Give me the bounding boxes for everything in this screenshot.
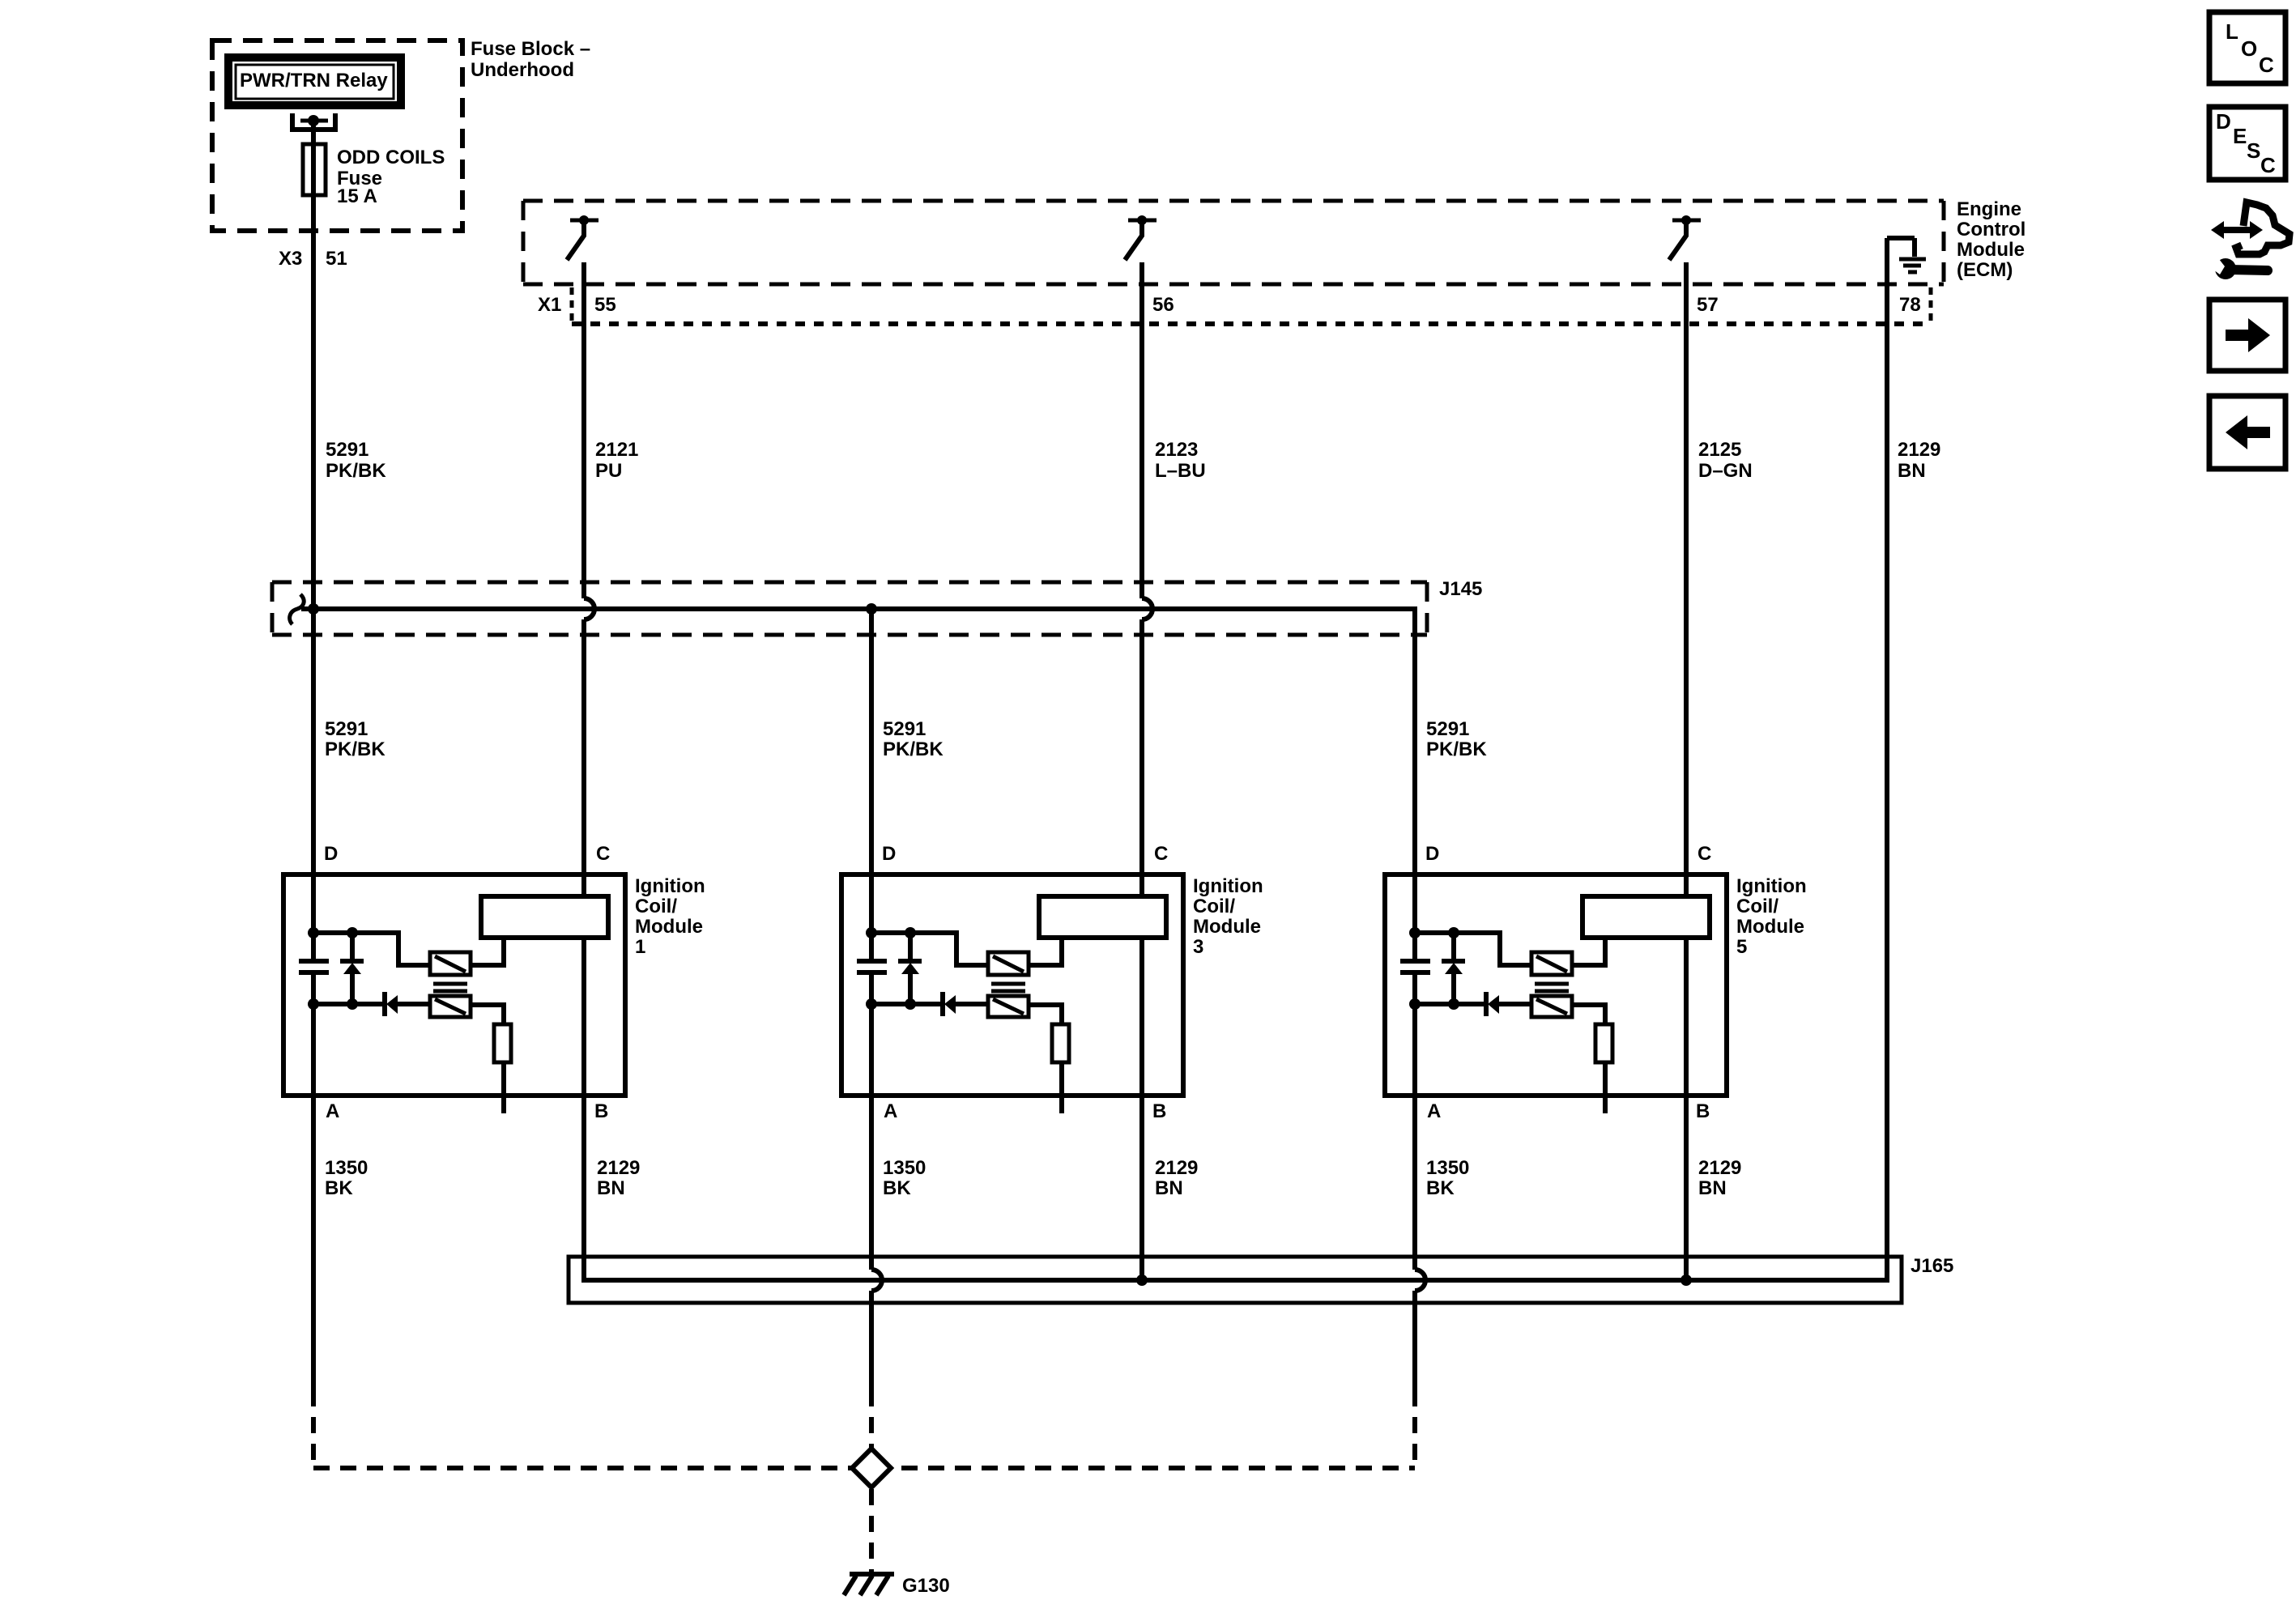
- svg-text:BN: BN: [1898, 460, 1926, 482]
- coil 3 output wire to resistor: [1029, 1005, 1062, 1113]
- svg-text:D: D: [882, 843, 896, 865]
- relay terminal bracket: [292, 113, 335, 130]
- wire 5291 PK/BK to coil 3 D: [869, 609, 874, 961]
- svg-text:C: C: [2260, 153, 2276, 177]
- coil 5 diode: [1484, 992, 1489, 1016]
- coil 3 secondary winding: [988, 996, 1029, 1017]
- ECM dashed box bottom edge: [523, 283, 1944, 287]
- svg-text:51: 51: [326, 248, 347, 270]
- coil 1 row1 wire: [313, 933, 430, 965]
- icon left arrow: [2226, 415, 2270, 449]
- icon hand outline: [2236, 202, 2290, 254]
- svg-text:78: 78: [1899, 294, 1921, 316]
- junction dot J165 coil5 B: [1680, 1274, 1692, 1286]
- svg-text:S: S: [2247, 138, 2260, 163]
- svg-text:B: B: [594, 1100, 608, 1122]
- svg-text:PK/BK: PK/BK: [326, 460, 386, 482]
- ground G130 symbol: [850, 1572, 894, 1577]
- svg-text:Ignition: Ignition: [1193, 875, 1263, 897]
- dashed ground wire from coil5 A: [1412, 1390, 1417, 1468]
- dashed ground wire from coil3 A: [869, 1390, 874, 1450]
- ignition coil/module 3 box: [841, 874, 1183, 1096]
- svg-text:1350: 1350: [883, 1157, 926, 1179]
- coil 5 rect to primary wire: [1572, 938, 1605, 965]
- svg-text:1: 1: [635, 936, 645, 958]
- svg-text:C: C: [1698, 843, 1711, 865]
- svg-text:55: 55: [594, 294, 616, 316]
- svg-text:D: D: [1425, 843, 1439, 865]
- svg-text:2129: 2129: [1898, 439, 1940, 461]
- coil 3 core bars: [991, 982, 1025, 986]
- svg-text:BN: BN: [597, 1177, 625, 1199]
- coil 1 core bars: [433, 982, 467, 986]
- wire 1350 BK coil1 A: [311, 972, 316, 1390]
- svg-text:BN: BN: [1698, 1177, 1727, 1199]
- coil 5 row1 wire: [1415, 933, 1531, 965]
- X1 separator dash left: [570, 287, 574, 322]
- svg-text:L–BU: L–BU: [1155, 460, 1206, 482]
- icon box DESC: [2209, 107, 2285, 180]
- svg-text:PK/BK: PK/BK: [1426, 738, 1487, 760]
- junction dot J145 at wire 5291 coil1: [308, 603, 319, 615]
- coil 3 row1 wire: [871, 933, 988, 965]
- coil 1 output wire to resistor: [471, 1005, 504, 1113]
- svg-text:X3: X3: [279, 248, 302, 270]
- svg-text:2123: 2123: [1155, 439, 1198, 461]
- coil 5 row2 wire: [1415, 1002, 1486, 1006]
- svg-text:Engine: Engine: [1957, 198, 2021, 220]
- coil 3 rect to primary wire: [1029, 938, 1062, 965]
- svg-text:BK: BK: [1426, 1177, 1455, 1199]
- svg-text:2125: 2125: [1698, 439, 1741, 461]
- wire 1350 BK coil5 A with J165 hop: [1412, 972, 1417, 1270]
- svg-text:15 A: 15 A: [337, 185, 377, 207]
- ignition coil/module 1 box: [283, 874, 625, 1096]
- svg-text:5291: 5291: [883, 718, 926, 740]
- coil 5 secondary winding: [1531, 996, 1572, 1017]
- svg-text:Coil/: Coil/: [1736, 896, 1778, 917]
- svg-text:Coil/: Coil/: [635, 896, 677, 917]
- relay terminal tick: [300, 119, 328, 123]
- splice pack J145 dashed box: [272, 581, 1427, 585]
- wire 5291 PK/BK to coil 5 D: [1412, 622, 1417, 961]
- svg-text:2129: 2129: [597, 1157, 640, 1179]
- coil 5 zener diode: [1451, 933, 1456, 961]
- coil 1 diode: [382, 992, 387, 1016]
- svg-text:G130: G130: [902, 1575, 950, 1597]
- svg-text:5291: 5291: [326, 439, 368, 461]
- svg-text:Ignition: Ignition: [1736, 875, 1807, 897]
- dashed ground horizontal bus: [313, 1466, 1415, 1470]
- wire 1350 BK coil3 A with J165 hop: [869, 972, 874, 1270]
- svg-text:C: C: [2259, 53, 2274, 77]
- coil 3 junction dots: [866, 927, 877, 938]
- svg-text:56: 56: [1152, 294, 1174, 316]
- wire 2121 PU pin 55 to coil 1 C: [581, 262, 586, 598]
- svg-text:Ignition: Ignition: [635, 875, 705, 897]
- fuse block underhood dashed box: [212, 40, 462, 231]
- ECM internal ground wire bend: [1887, 236, 1915, 240]
- coil 3 row2 wire: [871, 1002, 943, 1006]
- wire 2125 D-GN pin 57 to coil 5 C: [1684, 262, 1689, 1280]
- svg-text:BN: BN: [1155, 1177, 1183, 1199]
- ECM driver switch for pin 57: [1672, 219, 1701, 223]
- svg-text:C: C: [1154, 843, 1168, 865]
- svg-text:L: L: [2226, 19, 2238, 44]
- coil 3 diode: [940, 992, 945, 1016]
- coil 5 core bars: [1535, 982, 1569, 986]
- icon wrench: [2215, 258, 2236, 279]
- ignition coil/module 5 box: [1385, 874, 1727, 1096]
- svg-text:D–GN: D–GN: [1698, 460, 1753, 482]
- svg-text:J165: J165: [1910, 1255, 1953, 1277]
- ECM internal ground symbol bars: [1899, 257, 1926, 262]
- svg-text:PK/BK: PK/BK: [325, 738, 386, 760]
- coil 3 primary winding: [988, 952, 1029, 975]
- dashed ground wire from coil1 A: [311, 1390, 316, 1468]
- svg-text:3: 3: [1193, 936, 1203, 958]
- icon box right arrow: [2209, 300, 2285, 371]
- coil 3 secondary big rect: [1039, 896, 1166, 938]
- coil 3 resistor: [1052, 1024, 1069, 1062]
- svg-text:Underhood: Underhood: [471, 59, 574, 81]
- dashed wire diamond to G130: [869, 1489, 874, 1572]
- svg-text:BK: BK: [325, 1177, 353, 1199]
- coil 1 junction dots: [308, 927, 319, 938]
- svg-text:1350: 1350: [325, 1157, 368, 1179]
- coil 5 secondary big rect: [1582, 896, 1710, 938]
- svg-text:5: 5: [1736, 936, 1747, 958]
- svg-text:5291: 5291: [325, 718, 368, 740]
- junction dot J165 coil3 B: [1136, 1274, 1148, 1286]
- coil 5 primary winding: [1531, 952, 1572, 975]
- J145 bus wire: [301, 609, 1415, 625]
- icon box LOC: [2209, 12, 2285, 83]
- icon box left arrow: [2209, 396, 2285, 469]
- svg-text:Module: Module: [1736, 916, 1804, 938]
- coil 5 junction dots: [1409, 927, 1421, 938]
- coil 1 resistor: [494, 1024, 511, 1062]
- svg-text:2129: 2129: [1155, 1157, 1198, 1179]
- svg-text:1350: 1350: [1426, 1157, 1469, 1179]
- relay K PWR/TRN Relay box: [228, 57, 401, 105]
- svg-text:5291: 5291: [1426, 718, 1469, 740]
- ECM driver switch for pin 55: [570, 219, 598, 223]
- svg-text:Module: Module: [635, 916, 703, 938]
- ECM driver switch for pin 56: [1128, 219, 1157, 223]
- svg-text:O: O: [2241, 36, 2257, 61]
- svg-text:Coil/: Coil/: [1193, 896, 1235, 917]
- coil 1 zener diode: [350, 933, 355, 961]
- coil 1 secondary big rect: [481, 896, 608, 938]
- svg-text:Control: Control: [1957, 219, 2026, 240]
- svg-text:(ECM): (ECM): [1957, 259, 2013, 281]
- svg-text:ODD COILS: ODD COILS: [337, 147, 445, 168]
- splice pack J165 box: [569, 1257, 1902, 1303]
- J165 bus wire: [584, 1260, 1887, 1280]
- svg-text:2121: 2121: [595, 439, 638, 461]
- X1 separator dash right: [1929, 287, 1933, 322]
- coil 1 primary winding: [430, 952, 471, 975]
- svg-text:A: A: [884, 1100, 897, 1122]
- svg-text:2129: 2129: [1698, 1157, 1741, 1179]
- coil 5 resistor: [1595, 1024, 1612, 1062]
- icon right arrow: [2226, 318, 2270, 352]
- relay terminal dot: [308, 115, 319, 126]
- splice diamond: [852, 1449, 891, 1487]
- coil 3 capacitor: [857, 959, 887, 964]
- svg-text:Module: Module: [1193, 916, 1261, 938]
- coil 3 zener diode: [908, 933, 913, 961]
- svg-text:PK/BK: PK/BK: [883, 738, 944, 760]
- ECM dashed box left edge: [522, 201, 526, 284]
- ECM dashed box right edge: [1942, 201, 1946, 284]
- coil 1 capacitor: [299, 959, 329, 964]
- svg-text:BK: BK: [883, 1177, 911, 1199]
- svg-text:X1: X1: [538, 294, 561, 316]
- svg-text:PWR/TRN Relay: PWR/TRN Relay: [240, 70, 388, 91]
- wire 2123 L-BU pin 56 to coil 3 C: [1139, 262, 1144, 598]
- coil 5 capacitor: [1400, 959, 1430, 964]
- svg-text:A: A: [326, 1100, 339, 1122]
- ECM connector X1 dotted line: [572, 321, 1931, 326]
- wire 5291 from relay through fuse: [311, 118, 316, 961]
- svg-text:B: B: [1152, 1100, 1166, 1122]
- svg-text:C: C: [596, 843, 610, 865]
- svg-text:E: E: [2233, 124, 2247, 148]
- fuse F ODD COILS 15A body: [303, 144, 326, 195]
- coil 1 row2 wire: [313, 1002, 385, 1006]
- wire 2129 BN from pin 78: [1885, 238, 1889, 1280]
- coil 1 secondary winding: [430, 996, 471, 1017]
- icon double arrow: [2211, 221, 2263, 239]
- svg-text:Module: Module: [1957, 239, 2025, 261]
- svg-text:57: 57: [1697, 294, 1719, 316]
- svg-text:D: D: [324, 843, 338, 865]
- svg-text:PU: PU: [595, 460, 622, 482]
- svg-text:D: D: [2216, 109, 2231, 134]
- svg-text:A: A: [1427, 1100, 1441, 1122]
- J145 splice curl: [290, 594, 305, 624]
- svg-text:Fuse Block –: Fuse Block –: [471, 38, 590, 60]
- coil 1 rect to primary wire: [471, 938, 504, 965]
- ECM dashed box top edge: [523, 199, 1944, 203]
- svg-text:B: B: [1696, 1100, 1710, 1122]
- coil 5 output wire to resistor: [1572, 1005, 1605, 1113]
- junction dot J145 feed coil 3: [866, 603, 877, 615]
- svg-text:J145: J145: [1439, 578, 1482, 600]
